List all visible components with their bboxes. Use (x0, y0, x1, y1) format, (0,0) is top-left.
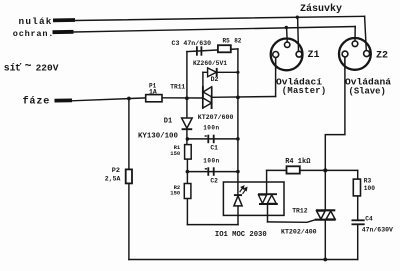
svg-text:nulák: nulák (19, 16, 53, 27)
svg-text:100n: 100n (203, 158, 219, 165)
svg-text:Z1: Z1 (308, 50, 320, 61)
svg-text:P2: P2 (112, 167, 120, 175)
svg-text:C1: C1 (210, 145, 218, 152)
svg-text:C4: C4 (365, 216, 373, 223)
svg-text:TR12: TR12 (292, 207, 308, 214)
svg-text:KZ260/5V1: KZ260/5V1 (193, 60, 227, 67)
svg-text:C3 47n/630: C3 47n/630 (172, 40, 212, 47)
svg-text:D1: D1 (164, 117, 172, 125)
svg-text:150: 150 (170, 150, 180, 157)
svg-text:R5: R5 (223, 38, 231, 45)
svg-text:1A: 1A (149, 88, 157, 95)
svg-text:150: 150 (170, 190, 180, 197)
svg-text:KY130/100: KY130/100 (138, 132, 178, 140)
svg-text:KT207/600: KT207/600 (198, 114, 234, 121)
svg-text:TR11: TR11 (170, 84, 185, 91)
svg-text:C2: C2 (210, 178, 218, 185)
svg-text:síť: síť (4, 63, 22, 74)
svg-text:R3: R3 (364, 178, 372, 185)
svg-text:KT202/400: KT202/400 (281, 228, 317, 235)
svg-text:IO1 MOC 2030: IO1 MOC 2030 (215, 231, 267, 239)
svg-text:R4 1kΩ: R4 1kΩ (285, 158, 311, 166)
svg-text:ochran.: ochran. (13, 29, 54, 39)
svg-text:Z2: Z2 (376, 51, 388, 62)
svg-text:(Master): (Master) (282, 86, 327, 96)
svg-text:82: 82 (234, 38, 242, 45)
svg-text:2,5A: 2,5A (105, 175, 121, 182)
svg-text:Zásuvky: Zásuvky (300, 3, 342, 15)
svg-text:D2: D2 (211, 76, 219, 83)
svg-text:47n/630V: 47n/630V (362, 227, 393, 234)
svg-text:100: 100 (364, 185, 375, 192)
svg-text:100n: 100n (203, 125, 219, 132)
svg-text:~: ~ (25, 60, 32, 73)
svg-text:fáze: fáze (23, 96, 51, 108)
svg-text:220V: 220V (36, 63, 59, 74)
svg-text:(Slave): (Slave) (349, 86, 386, 96)
